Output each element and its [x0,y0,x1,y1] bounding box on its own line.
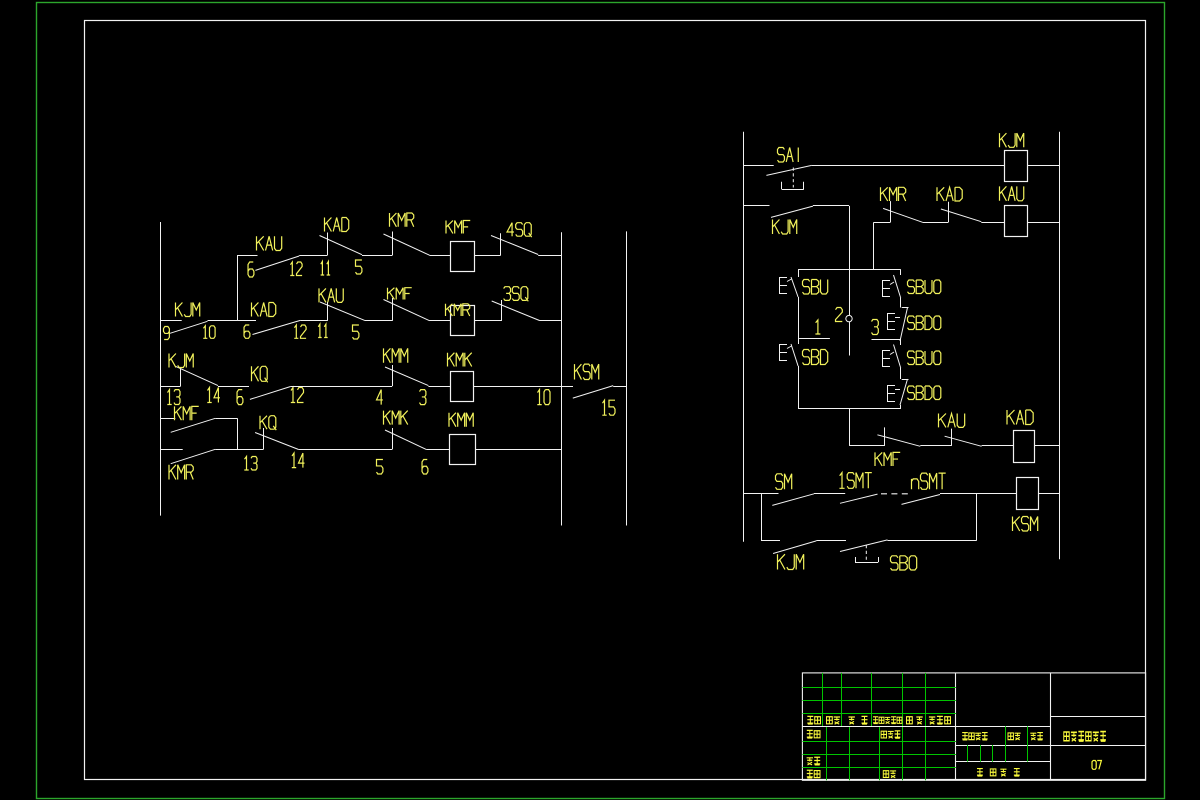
label KMR row4 [169,465,193,480]
text 重量 [1008,733,1021,740]
wire [1027,222,1059,224]
table column line lower 2 [849,726,851,780]
wire [475,449,561,451]
wire [290,386,392,388]
node 1 bar [799,338,830,340]
coil KSM [1017,478,1039,510]
pin 4 KMM row3 [377,390,383,405]
text 检修运行电路 title [1064,732,1106,742]
contact KQ row4 (NC) [255,428,298,449]
contact KAU row1 (NO) [255,256,299,270]
wire [538,255,561,257]
wire [430,255,451,257]
wire node2 drop [849,206,851,315]
pin 5 KAU row2 [353,325,359,339]
text 工艺 [807,770,820,778]
label KMM row3 [384,348,408,362]
middle section row line 2 [956,745,1051,747]
label KMR row1 [390,213,414,227]
coil KAU (up relay) [1005,206,1028,237]
pushbutton SBU (NO) [791,277,798,297]
label KJM row3 [169,354,193,368]
pushbutton SBU0 upper (NO) [894,275,901,298]
pin 11 KAU row2 [318,324,328,337]
wire right branch seg2 [900,298,902,308]
wire dashed continuation [881,493,910,495]
pin 15 row3 [602,400,615,415]
SBO actuator bracket [855,545,879,563]
wire button-net bottom bus [798,408,901,410]
wire [298,449,392,451]
wire rowC drop [873,222,875,269]
text 共张第张 [977,769,1020,777]
table column line 1 [822,673,824,726]
label KAU coil rowC [1000,186,1024,200]
pin 9 KJM row2 [164,327,170,340]
label KMF row2 [388,288,412,300]
wire [428,386,451,388]
wire [237,255,257,257]
wire button-net top bus [798,269,901,271]
label 4SQ row1 [507,223,532,237]
table row line 1 [802,687,956,689]
pin 6 KQ row3 [237,390,243,405]
wire left branch mid2 [798,339,800,345]
wire [362,255,393,257]
pin 5 KMK row4 [377,460,383,475]
contact KMR row4 (NO) [171,449,216,463]
wire [923,222,949,224]
wire [744,493,779,495]
wire [218,386,249,388]
contact KMK row4 (NC) [385,428,426,449]
right section row line 1 [1051,716,1146,718]
label KMF coil row1 [446,221,470,234]
text 审核 [807,757,821,765]
wire [920,445,951,447]
label SBU0 lower [908,351,941,365]
pushbutton SBO (NO) [840,540,888,552]
coil KMF (forward contactor) [451,242,475,272]
contact KMR rowC (NC) [883,201,923,222]
wire [475,320,502,322]
label KMM coil row4 [449,413,473,427]
middle col line 2 [1027,726,1029,761]
table row line white [802,726,956,728]
table column line 4 [902,673,904,726]
switch nSMT (NO) [902,495,941,505]
contact KJM row2 (NO) [170,321,208,333]
title block divider 1 [955,673,957,780]
label 1SMT [839,473,871,489]
wire [981,222,1004,224]
contact KQ row3 (NO) [250,387,290,400]
wire [365,320,393,322]
label KJM row2 [176,303,200,317]
label SM [776,474,792,490]
coil KMM [450,435,476,465]
wire [430,320,451,322]
title block divider 2 [1050,673,1052,780]
pin 11 KAD row1 [321,262,331,276]
text 比例 [1030,733,1043,740]
label KAU row2 [319,288,343,302]
contact KJM row3 (NC) [176,366,219,386]
switch SM (NO) [772,494,814,506]
label SBD [803,350,828,365]
contact KAU row2 (NC) [320,302,365,321]
label KJM rowB [773,220,797,235]
label SBU0 upper [908,280,941,294]
left power rail [160,222,162,516]
label SBD0 lower [908,386,941,400]
actuator E of SBU [779,277,792,294]
contact KJM rowB (NO) [771,206,813,217]
actuator E of SBD0 upper [887,313,900,330]
middle col line lower 2 [980,745,982,762]
wire bottom-bus drop [849,409,851,446]
contact KSM row3 (NO) [573,386,613,399]
contact 3SQ row2 (NC limit switch) [492,300,540,321]
switch 1SMT (NO) [840,494,878,503]
label SAI [778,148,799,163]
pin 6 KMK row4 [422,460,428,475]
wire node2 stem [849,322,851,356]
label KMR coil row2 [446,304,470,316]
label KAD coil rowD [1007,410,1033,425]
label nSMT [912,473,946,489]
wire right branch seg4 [900,368,902,379]
coil KMR (reverse contactor) [451,306,475,336]
wire right branch upper [900,269,902,275]
label KMF rowD [875,452,900,466]
wire [237,320,256,322]
text 07 [1092,761,1101,770]
contact KMF row2 (NC) [384,298,430,321]
contact KMR row1 (NC) [384,232,430,256]
middle col line lower 1 [967,745,969,762]
contact 4SQ row1 (NC limit switch) [491,233,538,255]
table row line 4 [802,741,956,743]
wire right branch lower [900,405,902,409]
table row line 2 [802,700,956,702]
text 批准 [883,771,896,778]
pushbutton SBU0 lower (NO) [894,345,901,369]
label SBO [891,556,917,570]
pin 3 KMM row3 [420,390,426,405]
right-circuit right rail [1059,132,1061,560]
branch wire rail-to-rowF [761,494,763,541]
wire right branch seg3 [900,339,902,345]
label KSM coil rowE [1013,517,1038,532]
wire [744,165,774,167]
table row line 3 [802,713,956,715]
wire [816,540,846,542]
pin 10 row3 [537,390,550,405]
label SBU [803,280,828,295]
text 阶段标记 [962,733,987,740]
contact KJM rowF (NO) [773,541,816,554]
wire [1035,445,1060,447]
wire [161,320,182,322]
wire [475,255,501,257]
pin 1 node [815,320,820,334]
wire [474,386,561,388]
wire [300,320,327,322]
pin 5 KAD row1 [356,260,362,274]
actuator E of SBU0 lower [882,350,894,367]
table column line lower 4 [902,726,904,780]
wire [161,386,181,388]
wire left branch lower [798,366,800,409]
text 签名 [907,717,923,724]
branch wire rowE-to-rowF [976,494,978,541]
pin 14 KJM row3 [207,388,220,403]
wire [982,445,1014,447]
table column line 2 [841,673,843,726]
text 设计 [807,730,820,738]
contact KAU rowD (NC) [945,429,982,447]
pin 2 node [836,308,843,322]
label KMF row4 [175,406,199,420]
branch wire KMF-to-row4 [237,418,239,449]
label KMK row4 [384,411,408,425]
table row line 5 [802,754,956,756]
table column line lower 3 [879,726,881,780]
middle section row line 1 [956,726,1051,728]
wire KMR branch row4 [161,449,183,451]
wire [812,165,1004,167]
label KJM coil rowA [1000,133,1024,147]
label KAD rowC [937,187,962,201]
label KAD row2 [252,303,276,317]
label KMR rowC [881,187,906,201]
pin 14 KQ row4 [292,453,305,468]
wire left branch mid [798,297,800,339]
text 更改文件号 [873,717,902,724]
contact KMF rowD (NC) [877,427,920,446]
right-circuit left rail [743,132,745,542]
right section row line 2 [1051,745,1146,747]
wire [744,205,770,207]
label KMK coil row3 [448,353,472,367]
actuator E of SBD0 lower [887,385,900,402]
coil KAD (down relay) [1014,431,1035,463]
contact KAD row1 (NC) [320,233,363,256]
pin 10 KJM row2 [203,326,215,339]
contact KMM row3 (NC) [385,365,428,386]
wire [613,386,627,388]
pin 6 KAD row2 [244,325,250,338]
pin 12 KQ row3 [291,388,304,403]
wire [1038,493,1059,495]
text 分区 [849,716,868,724]
text 处数 [827,717,841,724]
pin 6 KAU row1 [248,262,254,277]
wire [208,320,238,322]
wire [888,540,977,542]
pushbutton SBD (NO) [791,344,798,366]
table row line 6 [802,767,956,769]
title block outline [802,673,1145,780]
switch SAI (NO with actuator) [766,165,811,175]
middle col line 1 [1005,726,1007,761]
contact KMF row4 (NO) [171,418,216,432]
table column line lower 1 [826,726,828,780]
wire [299,255,327,257]
right rail 2 [626,231,628,525]
label KSM row3 [575,364,599,379]
pin 12 KAD row2 [294,325,306,338]
contact KAD rowC (NC) [941,202,981,223]
pin 3 node [872,320,879,335]
wire [761,540,780,542]
wire [540,320,562,322]
pin 13 KQ row4 [244,457,257,471]
label KAU rowD [939,414,965,428]
middle col line lower 3 [992,745,994,762]
pushbutton SBD0 upper (NC) [900,308,909,342]
label KAU row1 [257,236,282,250]
wire KMF branch row4 [215,418,237,420]
text 标准化 [881,731,900,738]
label KAD row1 [325,218,349,232]
label KQ row3 [252,366,268,382]
pin 13 KJM row3 [167,390,180,405]
branch wire row1-row2 [237,255,239,321]
actuator E of SBD [779,344,792,361]
wire [561,386,573,388]
wire [813,205,849,207]
wire [814,493,845,495]
label KQ row4 [260,416,276,430]
text 年月日 [929,716,951,724]
right rail 1 [561,232,563,525]
wire [940,493,1016,495]
coil KMK [451,372,474,402]
table column line 5 [925,673,927,726]
node 2 circle [846,315,852,321]
coil KJM (relay) [1005,151,1028,182]
node 3 bar [872,339,901,341]
middle section row line 3 [956,761,1051,763]
label 3SQ row2 [504,287,529,302]
text 标记 [807,716,820,724]
wire [849,445,885,447]
contact KAD row2 (NO) [253,320,301,334]
SAI actuator bracket [782,168,804,190]
wire [874,222,891,224]
wire [426,449,449,451]
wire [215,449,263,451]
table column line 3 [871,673,873,726]
label KJM rowF [778,554,804,569]
pushbutton SBD0 lower (NC) [900,379,909,405]
wire [1027,165,1059,167]
wire KMF branch row4 [161,418,176,420]
label SBD0 upper [908,316,941,330]
table column line lower 5 [925,726,927,780]
wire left branch upper [798,269,800,277]
pin 12 KAU row1 [290,262,302,276]
actuator E of SBU0 upper [882,280,894,297]
